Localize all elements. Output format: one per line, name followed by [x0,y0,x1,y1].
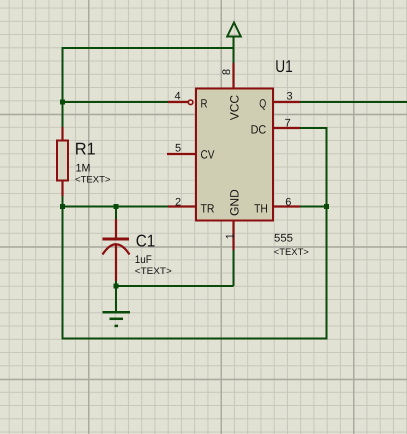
svg-text:TH: TH [254,202,268,216]
svg-text:555: 555 [274,232,293,244]
svg-text:DC: DC [251,123,267,137]
svg-text:CV: CV [201,148,215,162]
svg-text:R1: R1 [75,140,96,159]
svg-text:C1: C1 [136,231,156,250]
svg-text:<TEXT>: <TEXT> [135,266,172,277]
svg-text:3: 3 [287,91,293,103]
svg-text:U1: U1 [275,57,293,76]
svg-text:<TEXT>: <TEXT> [274,247,309,258]
svg-text:6: 6 [285,197,291,209]
svg-text:4: 4 [175,91,181,103]
svg-text:TR: TR [201,202,215,216]
svg-text:1M: 1M [76,162,91,174]
svg-text:R: R [201,97,208,111]
svg-text:<TEXT>: <TEXT> [75,175,111,186]
svg-text:2: 2 [175,197,181,209]
svg-text:5: 5 [175,143,181,155]
svg-text:Q: Q [259,97,266,111]
svg-text:1uF: 1uF [135,254,152,266]
svg-text:7: 7 [285,118,291,130]
